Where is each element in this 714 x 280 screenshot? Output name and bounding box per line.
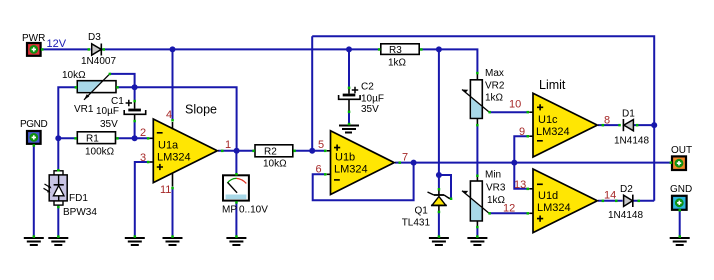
connector OUT — [672, 156, 686, 170]
wire VR2 bottom to VR3 top — [476, 126, 478, 175]
label PGND — [20, 119, 47, 130]
pin number 13 — [514, 179, 526, 191]
svg-text:PGND: PGND — [20, 119, 47, 130]
label FD1 — [69, 193, 88, 204]
value 1N4148 D1 — [614, 136, 649, 147]
svg-text:LM324: LM324 — [537, 202, 571, 214]
pin stub U1d pin12 — [529, 212, 533, 214]
wire PGND to ground — [33, 144, 35, 237]
wire R1 left stub — [58, 137, 74, 139]
svg-text:MP: MP — [222, 205, 237, 216]
wire FD1 bottom to ground — [57, 206, 59, 237]
pin stub U1a pin2 — [150, 137, 154, 139]
wire 12V rail from PWR to D3 — [41, 48, 91, 50]
wire VR1 wiper to feedback node — [110, 74, 135, 87]
pin stub U1a pin4 — [172, 122, 174, 129]
svg-text:R2: R2 — [264, 146, 277, 157]
pin number 8 — [604, 115, 610, 127]
pin number 7 — [402, 152, 408, 164]
svg-text:FD1: FD1 — [69, 193, 88, 204]
junction pin5 node — [309, 148, 315, 154]
svg-text:GND: GND — [670, 184, 692, 195]
pin number 9 — [519, 126, 525, 138]
wire pin9 branch — [514, 136, 526, 162]
wire C1 top lead — [134, 87, 136, 100]
junction feedback node C1 top — [132, 84, 138, 90]
label D1 — [622, 109, 635, 120]
pin stub U1a pin3 — [150, 161, 154, 163]
wire C2 supply drop at x=349 — [348, 49, 350, 87]
pin stub U1c pin10 — [529, 111, 533, 113]
wire U1a output to R2 — [218, 150, 255, 152]
wire U1b pin6 feedback loop — [313, 163, 414, 201]
svg-text:BPW34: BPW34 — [63, 207, 97, 218]
pin number 1 — [225, 139, 231, 151]
svg-text:U1b: U1b — [335, 151, 355, 163]
plus sign C2 — [352, 87, 358, 93]
svg-text:OUT: OUT — [671, 145, 692, 156]
svg-text:VR3: VR3 — [486, 183, 506, 194]
ground Q1 — [429, 238, 449, 245]
svg-text:R1: R1 — [86, 133, 99, 144]
svg-text:LM324: LM324 — [157, 152, 191, 164]
title Limit — [539, 78, 566, 92]
svg-text:TL431: TL431 — [402, 218, 431, 229]
value 10k R2 — [263, 159, 287, 170]
label MP — [222, 205, 237, 216]
svg-text:0..10V: 0..10V — [239, 205, 268, 216]
ground U1a pin3 — [125, 238, 145, 245]
net label 12V — [47, 38, 67, 50]
svg-text:U1a: U1a — [158, 140, 179, 152]
label C1 — [111, 96, 124, 107]
wire U1c output to D1 — [598, 124, 619, 126]
wire feedback from VR1 right to U1a output node — [116, 87, 236, 151]
photodiode FD1 — [44, 171, 68, 205]
label VR3 — [486, 183, 506, 194]
wire VR3 wiper to U1d pin12 — [490, 212, 527, 214]
connection ticks green — [33, 48, 681, 238]
ground U1a pin11 — [163, 238, 183, 245]
svg-text:35V: 35V — [361, 104, 379, 115]
value 10uF C1 — [96, 106, 119, 117]
diode D1 — [623, 119, 633, 131]
wire pin13 branch — [514, 163, 526, 189]
svg-text:1N4148: 1N4148 — [614, 136, 649, 147]
title Slope — [185, 103, 217, 117]
pin stub U1b pin6 — [327, 173, 331, 175]
wire clamp loop top and right vertical — [312, 36, 654, 201]
svg-text:8: 8 — [604, 115, 610, 127]
svg-text:6: 6 — [316, 164, 322, 176]
svg-text:13: 13 — [514, 179, 526, 191]
svg-text:9: 9 — [519, 126, 525, 138]
svg-text:Slope: Slope — [185, 103, 217, 117]
value 1N4148 D2 — [608, 210, 643, 221]
plus sign C1 — [126, 100, 132, 106]
potentiometer VR1 — [77, 74, 116, 100]
wire MP meter top — [235, 151, 237, 174]
svg-text:4: 4 — [166, 109, 172, 121]
value 1k R3 — [388, 58, 407, 69]
value 10uF C2 — [361, 94, 384, 105]
svg-text:Max: Max — [485, 68, 504, 79]
junction left bus R1/VR1/FD1 — [55, 135, 61, 141]
svg-text:1: 1 — [225, 139, 231, 151]
label D2 — [620, 184, 633, 195]
wire node 7 from U1b output to OUT — [395, 162, 671, 164]
op-amp U1b — [331, 131, 395, 195]
wire TL431 reference loop — [439, 175, 451, 198]
svg-text:7: 7 — [402, 152, 408, 164]
label VR2 — [485, 81, 505, 92]
value 1k VR2 — [485, 93, 504, 104]
ground GND connector — [670, 238, 690, 245]
junction D1 clamp rail — [651, 122, 657, 128]
pin stub U1a pin11 — [172, 173, 174, 187]
svg-text:12: 12 — [503, 203, 515, 215]
meter MP — [223, 175, 249, 200]
junction on 12V rail at C2 drop — [346, 46, 352, 52]
ground PGND — [24, 238, 44, 245]
resistor R1 — [77, 132, 115, 145]
connector PWR — [27, 43, 41, 56]
svg-text:11: 11 — [160, 184, 171, 196]
svg-text:Limit: Limit — [539, 78, 566, 92]
ground VR3 — [467, 238, 487, 245]
label D3 — [88, 32, 101, 43]
junction node B right of R3 — [436, 46, 442, 52]
pin number 6 — [316, 164, 322, 176]
wire U1a pin3 to ground — [135, 162, 147, 237]
diode D2 — [624, 195, 633, 207]
junction node7 feedback corner — [411, 160, 417, 166]
wire 12V rail from D3 to R3 left — [101, 48, 381, 50]
junction pin2 node C1 bottom — [132, 135, 138, 141]
svg-text:14: 14 — [604, 190, 616, 202]
svg-text:D3: D3 — [88, 32, 101, 43]
value BPW34 — [63, 207, 97, 218]
svg-text:100kΩ: 100kΩ — [85, 147, 115, 158]
svg-text:Min: Min — [485, 170, 501, 181]
value TL431 — [402, 218, 431, 229]
wire pin4 supply drop at x=172.5 — [172, 49, 174, 119]
svg-text:LM324: LM324 — [334, 163, 368, 175]
junction U1a output node — [234, 148, 240, 154]
label VR1 — [74, 104, 94, 115]
wire U1a pin11 to ground — [172, 189, 174, 237]
capacitor C2 — [339, 88, 361, 126]
svg-text:10kΩ: 10kΩ — [62, 70, 86, 81]
svg-text:U1d: U1d — [538, 190, 558, 202]
svg-text:5: 5 — [318, 139, 324, 151]
wire VR3 bottom to ground — [476, 228, 478, 237]
pin number 2 — [140, 127, 146, 139]
svg-text:LM324: LM324 — [536, 126, 570, 138]
label GND — [670, 184, 692, 195]
pin stub U1d pin13 — [529, 188, 533, 190]
wire U1d output to D2 — [598, 200, 623, 202]
wire GND connector to ground — [679, 211, 681, 237]
svg-text:D2: D2 — [620, 184, 633, 195]
op-amp U1a — [153, 119, 217, 183]
pin number 5 — [318, 139, 324, 151]
svg-text:10kΩ: 10kΩ — [263, 159, 287, 170]
svg-text:C2: C2 — [361, 82, 374, 93]
junction on 12V rail at pin4 drop — [170, 46, 176, 52]
wire pin5 node up to clamp loop — [311, 36, 313, 151]
pin number 3 — [140, 152, 146, 164]
svg-text:1N4007: 1N4007 — [81, 56, 116, 67]
resistor R2 — [255, 145, 293, 158]
svg-text:35V: 35V — [100, 119, 118, 130]
op-amp U1d — [533, 169, 597, 233]
svg-text:1kΩ: 1kΩ — [388, 58, 407, 69]
pin number 10 — [509, 99, 521, 111]
wire VR1 left to left bus down to FD1 — [58, 87, 76, 169]
value 1k VR3 — [487, 195, 506, 206]
pin stub U1b pin5 — [327, 150, 331, 152]
wire node B from R3 right to VR2 top corner — [419, 49, 477, 73]
op-amp U1c — [533, 93, 597, 157]
ground MP meter — [226, 238, 246, 245]
value 35V C2 — [361, 104, 379, 115]
label Q1 — [415, 206, 429, 217]
pin number 14 — [604, 190, 616, 202]
pin number 4 — [166, 109, 172, 121]
svg-text:10µF: 10µF — [96, 106, 119, 117]
wire MP meter bottom to ground — [235, 203, 237, 237]
value 1N4007 — [81, 56, 116, 67]
wire node B vertical to TL431 cathode — [438, 49, 440, 188]
label PWR — [22, 33, 45, 44]
value 35V C1 — [100, 119, 118, 130]
svg-text:10µF: 10µF — [361, 94, 384, 105]
ground C2 — [339, 126, 359, 133]
svg-text:VR2: VR2 — [485, 81, 505, 92]
diode D3 — [92, 44, 102, 56]
svg-text:10: 10 — [509, 99, 521, 111]
label Min — [485, 170, 501, 181]
pin number 12 — [503, 203, 515, 215]
shunt regulator Q1 TL431 — [428, 190, 452, 237]
capacitor C1 — [124, 101, 146, 121]
label C2 — [361, 82, 374, 93]
ground FD1 — [48, 238, 68, 245]
potentiometer VR2 — [462, 74, 490, 126]
junction node7 comparator branch — [511, 160, 517, 166]
connector GND — [672, 196, 687, 210]
svg-text:1kΩ: 1kΩ — [485, 93, 504, 104]
wire VR2 wiper to U1c pin10 — [490, 111, 527, 113]
wire C1 bottom to pin2 node — [134, 122, 136, 139]
label Max — [485, 68, 504, 79]
svg-text:12V: 12V — [47, 38, 67, 50]
connector PGND — [27, 131, 41, 144]
value 0..10V — [239, 205, 268, 216]
value 100k R1 — [85, 147, 115, 158]
svg-text:PWR: PWR — [22, 33, 45, 44]
svg-text:Q1: Q1 — [415, 206, 429, 217]
pin number 11 — [160, 184, 171, 196]
potentiometer VR3 — [462, 175, 490, 227]
wire R1 right to U1a pin2 — [116, 137, 148, 139]
svg-text:R3: R3 — [389, 45, 402, 56]
svg-text:U1c: U1c — [538, 114, 558, 126]
svg-text:D1: D1 — [622, 109, 635, 120]
value 10k for VR1 — [62, 70, 86, 81]
wire R2 right to U1b pin5 — [293, 150, 324, 152]
svg-text:1N4148: 1N4148 — [608, 210, 643, 221]
wire D1 cathode side to clamp rail — [634, 124, 654, 126]
svg-text:3: 3 — [140, 152, 146, 164]
svg-text:2: 2 — [140, 127, 146, 139]
svg-text:VR1: VR1 — [74, 104, 94, 115]
junction TL431 ref tap — [436, 172, 442, 178]
resistor R3 — [381, 44, 419, 56]
wire D2 cathode to clamp rail — [633, 200, 654, 202]
pin stub U1c pin9 — [529, 135, 533, 137]
label OUT — [671, 145, 692, 156]
